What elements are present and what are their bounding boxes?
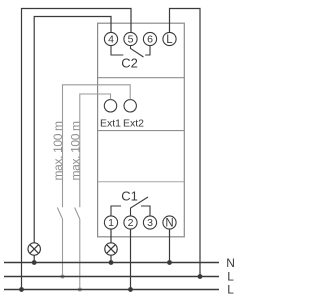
svg-text:3: 3 (147, 217, 153, 229)
terminal 3 (143, 216, 156, 229)
wire terminal 1 to lamp E2 (110, 229, 112, 243)
svg-text:N: N (165, 218, 173, 230)
junction dot S1 wire/bus3 (78, 288, 82, 292)
svg-text:N: N (226, 256, 235, 270)
lamp E1 (28, 243, 40, 255)
divider above C1 section (98, 181, 185, 183)
junction dot t2/bus3 (128, 287, 133, 292)
terminal N (163, 216, 176, 229)
svg-text:max. 100 m: max. 100 m (51, 121, 65, 181)
terminal 1 (104, 216, 117, 229)
device box (98, 23, 185, 237)
svg-text:L: L (227, 283, 234, 297)
svg-text:Ext1: Ext1 (100, 118, 121, 130)
relay contact C1 arm from 2 (131, 197, 149, 216)
svg-text:C2: C2 (121, 56, 138, 71)
junction dot lamp E1/bus N (32, 260, 37, 265)
junction dot lamp E2/bus N (109, 260, 114, 265)
terminal 6 (143, 32, 156, 45)
bus N (4, 262, 219, 264)
bus L bottom (4, 289, 219, 291)
wire lamp E2 to N bus (110, 255, 112, 263)
ext input Ext2 circle (124, 100, 136, 112)
svg-text:2: 2 (128, 217, 134, 229)
svg-text:6: 6 (147, 33, 153, 45)
terminal L (163, 32, 176, 45)
svg-text:C1: C1 (121, 189, 138, 204)
wire terminal 2 to L bus (bottom) (130, 229, 132, 289)
grey wire push-button S2 to Ext2 (63, 85, 131, 207)
wire terminal L to L bus (right loop) (170, 9, 201, 277)
junction dot S2 wire/bus2 (61, 275, 65, 279)
svg-text:L: L (166, 34, 173, 46)
junction dot L wire/bus2 (198, 274, 203, 279)
divider below Ext section (98, 130, 185, 132)
svg-text:1: 1 (108, 217, 114, 229)
relay contact C1 bracket from 1 (111, 206, 121, 216)
push-button S1 blade (75, 208, 80, 220)
wire L-bus to terminal 5 (left outer loop) (22, 9, 132, 290)
grey wire S1 to L bus (bottom) (79, 219, 81, 290)
wire terminal 4 to lamp E1 (34, 17, 111, 244)
bus L middle (4, 276, 219, 278)
divider below C2 section (98, 77, 185, 79)
svg-text:Ext2: Ext2 (123, 118, 144, 130)
junction dot N/bus1 (167, 260, 172, 265)
terminal 4 (104, 32, 117, 45)
wire terminal N to N bus (169, 229, 171, 262)
ext input Ext1 circle (104, 100, 116, 112)
terminal 2 (124, 216, 137, 229)
relay contact C2 bracket from 6 (145, 46, 150, 55)
junction dot wire/bus3 (19, 287, 24, 292)
grey wire S2 to L bus (middle) (62, 219, 64, 277)
relay contact C1 bracket from 3 (141, 206, 150, 216)
svg-text:max. 100 m: max. 100 m (68, 121, 82, 181)
lamp E2 (105, 243, 117, 255)
grey wire push-button S1 to Ext1 (80, 94, 111, 207)
svg-text:L: L (227, 270, 234, 284)
relay contact C2 arm from 5 (131, 46, 144, 57)
relay contact C2 bracket from 4 (111, 46, 123, 55)
svg-text:4: 4 (108, 33, 114, 45)
push-button S2 blade (57, 208, 62, 220)
svg-text:5: 5 (128, 33, 134, 45)
terminal 5 (124, 32, 137, 45)
wire lamp E1 to N bus (33, 255, 35, 263)
